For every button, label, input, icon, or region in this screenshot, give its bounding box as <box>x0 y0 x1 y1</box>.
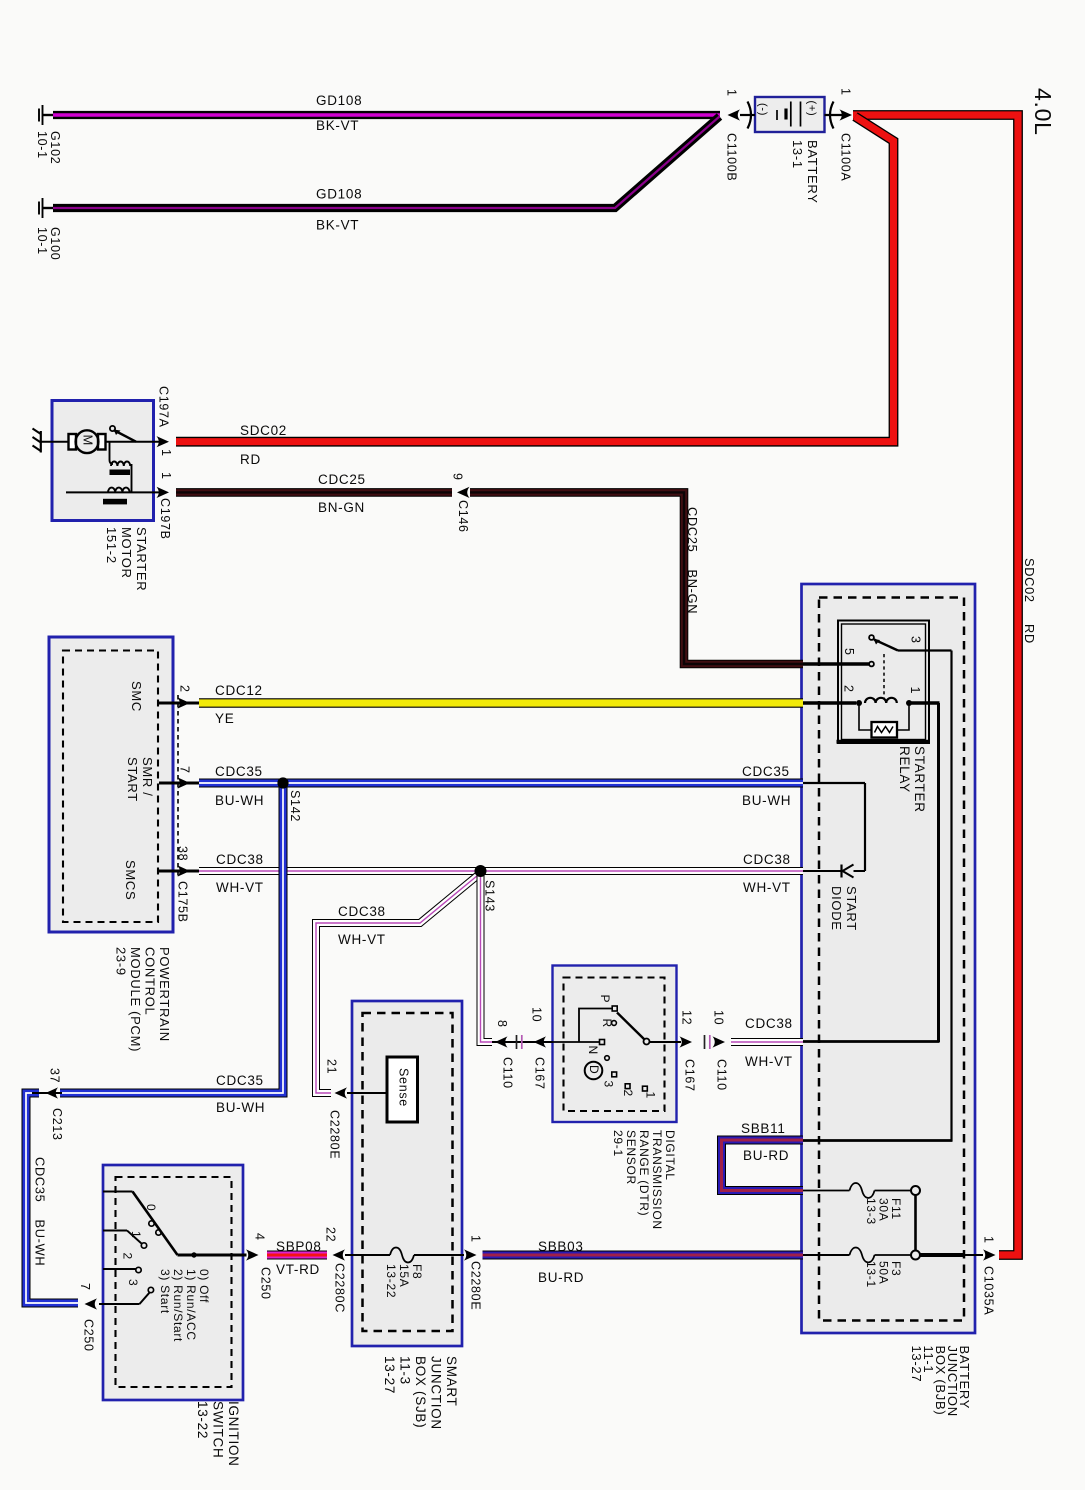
svg-text:C167: C167 <box>532 1057 546 1090</box>
svg-text:N: N <box>586 1046 600 1055</box>
svg-text:R: R <box>600 1019 614 1028</box>
svg-text:C175B: C175B <box>175 881 189 923</box>
svg-text:SMC: SMC <box>129 681 144 712</box>
svg-text:GD108: GD108 <box>316 187 362 202</box>
svg-text:4.0L: 4.0L <box>1030 88 1056 136</box>
svg-text:CDC25: CDC25 <box>318 472 366 487</box>
svg-text:21: 21 <box>324 1059 338 1074</box>
svg-text:2: 2 <box>120 1253 134 1260</box>
svg-text:STARTER: STARTER <box>912 746 927 813</box>
svg-text:DIGITAL: DIGITAL <box>663 1130 677 1181</box>
svg-text:MODULE (PCM): MODULE (PCM) <box>128 947 143 1052</box>
svg-text:13-27: 13-27 <box>382 1356 397 1394</box>
svg-text:C2280E: C2280E <box>327 1110 341 1159</box>
svg-text:1: 1 <box>468 1235 482 1243</box>
svg-text:SBP08: SBP08 <box>276 1239 322 1254</box>
svg-text:C167: C167 <box>682 1059 696 1092</box>
svg-text:3) Start: 3) Start <box>158 1269 172 1314</box>
svg-text:SMART: SMART <box>444 1356 459 1407</box>
svg-text:CDC12: CDC12 <box>215 683 263 698</box>
svg-text:F8: F8 <box>410 1264 424 1279</box>
svg-text:WH-VT: WH-VT <box>743 880 791 895</box>
svg-text:C197B: C197B <box>158 498 172 540</box>
svg-text:CDC35: CDC35 <box>216 1073 264 1088</box>
svg-text:WH-VT: WH-VT <box>338 932 386 947</box>
svg-text:M: M <box>81 435 96 447</box>
svg-text:SBB03: SBB03 <box>538 1239 584 1254</box>
svg-text:STARTER: STARTER <box>134 527 149 591</box>
svg-text:2: 2 <box>841 685 855 693</box>
svg-text:BU-WH: BU-WH <box>215 793 264 808</box>
svg-text:22: 22 <box>323 1227 337 1242</box>
svg-text:1: 1 <box>643 1092 657 1099</box>
svg-text:8: 8 <box>495 1020 509 1028</box>
svg-text:3: 3 <box>908 636 922 644</box>
svg-text:DIODE: DIODE <box>829 886 844 931</box>
svg-text:C110: C110 <box>500 1057 514 1089</box>
svg-text:START: START <box>844 886 859 931</box>
svg-text:2: 2 <box>621 1090 635 1097</box>
svg-text:3: 3 <box>126 1279 140 1286</box>
svg-text:CDC38: CDC38 <box>216 852 264 867</box>
svg-text:C2280E: C2280E <box>468 1261 482 1310</box>
svg-text:13-27: 13-27 <box>909 1346 924 1383</box>
svg-text:BU-RD: BU-RD <box>538 1270 584 1285</box>
svg-text:15A: 15A <box>397 1264 411 1287</box>
svg-text:C197A: C197A <box>156 386 170 428</box>
svg-text:CDC25 BN-GN: CDC25 BN-GN <box>685 507 700 614</box>
svg-text:0: 0 <box>144 1204 158 1211</box>
svg-text:10: 10 <box>529 1007 543 1022</box>
svg-text:S143: S143 <box>482 880 496 912</box>
svg-text:SBB11: SBB11 <box>741 1121 786 1136</box>
svg-text:SENSOR: SENSOR <box>624 1130 638 1185</box>
svg-text:BN-GN: BN-GN <box>318 500 365 515</box>
svg-text:7: 7 <box>177 766 191 774</box>
svg-text:1: 1 <box>838 88 852 96</box>
svg-text:CDC38: CDC38 <box>338 904 386 919</box>
svg-text:S142: S142 <box>288 790 302 822</box>
svg-text:WH-VT: WH-VT <box>745 1054 793 1069</box>
svg-text:CDC35: CDC35 <box>215 764 263 779</box>
svg-text:10-1: 10-1 <box>35 131 49 159</box>
svg-text:BATTERY: BATTERY <box>805 140 820 204</box>
svg-text:CDC38: CDC38 <box>745 1016 793 1031</box>
svg-text:(-): (-) <box>757 103 769 116</box>
svg-text:(+): (+) <box>806 101 818 117</box>
svg-text:2: 2 <box>177 685 191 693</box>
svg-text:1: 1 <box>981 1236 995 1244</box>
svg-text:0) Off: 0) Off <box>197 1269 211 1303</box>
svg-text:BK-VT: BK-VT <box>316 218 359 233</box>
svg-text:2) Run/Start: 2) Run/Start <box>171 1269 185 1342</box>
svg-text:RD: RD <box>240 452 261 467</box>
svg-text:37: 37 <box>47 1068 61 1083</box>
svg-text:29-1: 29-1 <box>611 1130 625 1157</box>
svg-text:C110: C110 <box>714 1059 728 1091</box>
svg-text:D: D <box>587 1065 601 1074</box>
svg-text:CONTROL: CONTROL <box>143 947 158 1015</box>
svg-text:WH-VT: WH-VT <box>216 880 264 895</box>
svg-text:SDC02 RD: SDC02 RD <box>1022 558 1037 644</box>
svg-text:BK-VT: BK-VT <box>316 118 359 133</box>
svg-text:GD108: GD108 <box>316 93 362 108</box>
svg-text:7: 7 <box>78 1283 92 1291</box>
svg-text:SMR /: SMR / <box>140 757 155 797</box>
svg-text:12: 12 <box>679 1010 693 1025</box>
svg-text:1: 1 <box>724 89 738 97</box>
svg-text:RANGE (DTR): RANGE (DTR) <box>637 1130 651 1216</box>
svg-text:C146: C146 <box>456 500 470 533</box>
svg-text:1: 1 <box>159 472 173 480</box>
svg-text:4: 4 <box>252 1233 266 1241</box>
svg-text:SDC02: SDC02 <box>240 423 287 438</box>
svg-text:BOX (SJB): BOX (SJB) <box>413 1356 428 1428</box>
svg-text:C1100B: C1100B <box>724 133 738 181</box>
svg-text:38: 38 <box>175 846 189 861</box>
svg-text:10: 10 <box>711 1010 725 1025</box>
svg-text:Sense: Sense <box>396 1068 410 1107</box>
svg-text:C1100A: C1100A <box>838 133 852 181</box>
svg-text:13-3: 13-3 <box>864 1198 878 1225</box>
svg-text:C1035A: C1035A <box>981 1266 995 1315</box>
svg-text:BU-WH: BU-WH <box>742 793 791 808</box>
svg-text:CDC35: CDC35 <box>742 764 790 779</box>
svg-text:13-1: 13-1 <box>864 1261 878 1288</box>
svg-text:C250: C250 <box>258 1267 272 1300</box>
svg-text:CDC35 BU-WH: CDC35 BU-WH <box>33 1157 48 1266</box>
svg-text:G100: G100 <box>48 227 62 260</box>
svg-text:BU-RD: BU-RD <box>743 1148 789 1163</box>
svg-text:10-1: 10-1 <box>35 227 49 255</box>
svg-text:SWITCH: SWITCH <box>211 1401 226 1458</box>
svg-text:RELAY: RELAY <box>897 746 912 793</box>
svg-text:SMCS: SMCS <box>123 860 138 900</box>
svg-text:1: 1 <box>129 1231 143 1238</box>
svg-text:151-2: 151-2 <box>104 527 119 564</box>
svg-text:1) Run/ACC: 1) Run/ACC <box>184 1269 198 1341</box>
svg-text:13-1: 13-1 <box>790 140 805 169</box>
svg-text:5: 5 <box>842 648 856 656</box>
svg-text:IGNITION: IGNITION <box>226 1401 241 1467</box>
svg-text:BU-WH: BU-WH <box>216 1100 265 1115</box>
svg-text:13-22: 13-22 <box>384 1264 398 1298</box>
svg-text:C250: C250 <box>81 1319 95 1352</box>
svg-text:C213: C213 <box>50 1108 64 1141</box>
svg-text:VT-RD: VT-RD <box>276 1262 320 1277</box>
svg-text:START: START <box>125 757 140 802</box>
svg-text:9: 9 <box>450 473 464 481</box>
svg-text:MOTOR: MOTOR <box>119 527 134 579</box>
svg-text:JUNCTION: JUNCTION <box>429 1356 444 1430</box>
svg-text:CDC38: CDC38 <box>743 852 791 867</box>
svg-text:G102: G102 <box>48 131 62 164</box>
svg-text:1: 1 <box>159 449 173 457</box>
svg-text:23-9: 23-9 <box>114 947 129 976</box>
svg-text:TRANSMISSION: TRANSMISSION <box>650 1130 664 1230</box>
svg-text:P: P <box>598 995 612 1004</box>
svg-text:YE: YE <box>215 711 234 726</box>
svg-text:13-22: 13-22 <box>195 1401 210 1439</box>
svg-text:C2280C: C2280C <box>332 1263 346 1313</box>
svg-text:POWERTRAIN: POWERTRAIN <box>157 947 172 1042</box>
svg-text:1: 1 <box>908 687 922 695</box>
svg-text:11-3: 11-3 <box>398 1356 413 1385</box>
svg-text:3: 3 <box>601 1081 615 1088</box>
